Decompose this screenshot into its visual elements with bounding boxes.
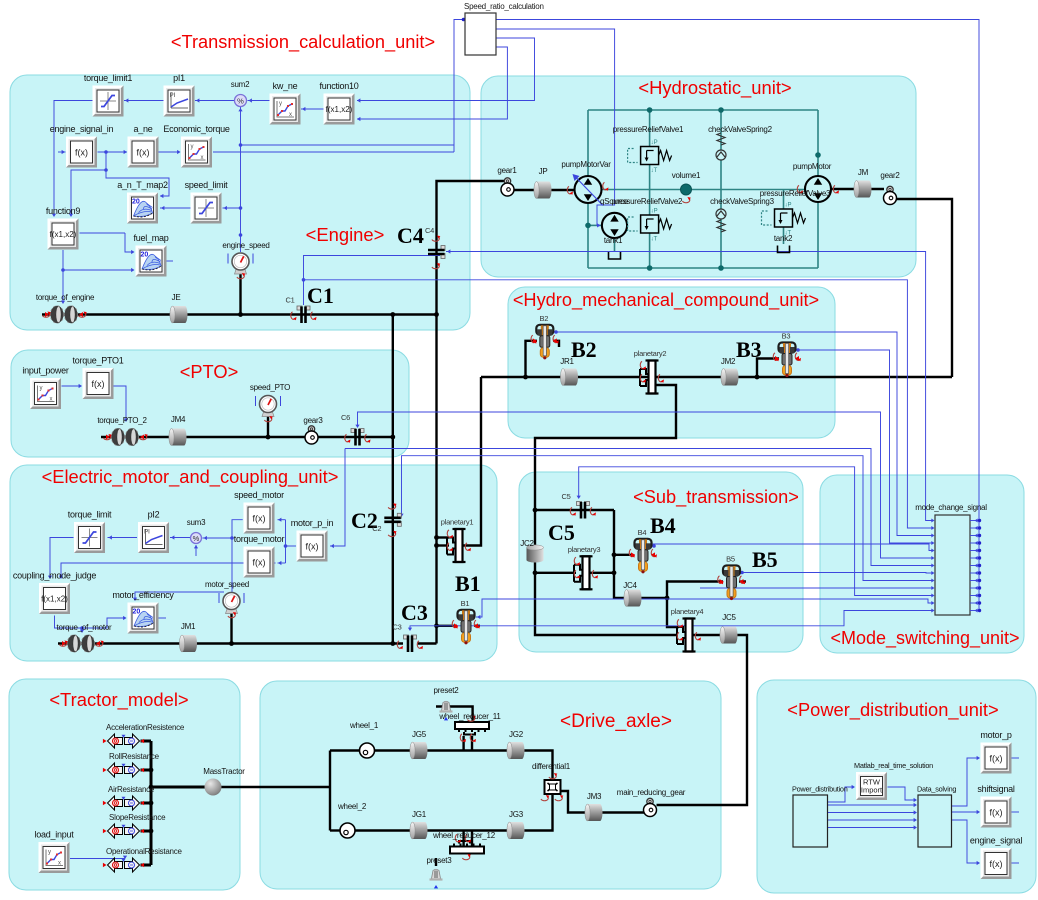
svg-text:y: y [40,386,43,392]
resistance AirResistance [108,796,140,810]
svg-text:JG2: JG2 [509,730,524,739]
svg-text:speed_limit: speed_limit [185,180,229,190]
block torque_PTO1 [72,356,123,400]
svg-text:↓P: ↓P [651,209,658,215]
wire speed_limit to a_n_T_map2 [160,207,191,209]
wire branch to C4 left [304,256,441,280]
svg-text:C3: C3 [401,600,428,625]
pump pumpMotor [805,176,831,202]
wire top wheel row [375,751,553,781]
svg-text:pressureReliefValve3: pressureReliefValve3 [760,189,831,198]
svg-text:f(x): f(x) [990,754,1003,764]
brake B4 [635,539,652,549]
svg-text:speed_PTO: speed_PTO [250,383,290,392]
wire engine_speed to shaft [239,270,241,315]
wire fuel_map top input [125,233,134,252]
wire pI2 to torque_limit [108,537,138,539]
gauge engine_speed [235,268,247,274]
svg-text:f(x1,x2): f(x1,x2) [326,105,353,114]
svg-text:f(x): f(x) [253,514,266,524]
block Data_solving [918,795,952,847]
wire B2 branch [526,341,538,377]
svg-text:B4: B4 [638,528,647,537]
svg-text:coupling_mode_judge: coupling_mode_judge [13,571,97,581]
wire Data_solving to shiftsignal [952,811,980,813]
block load_input [34,830,74,874]
hydraulic junction dots [647,107,653,113]
wire Speed_ratio out2 to qSource [497,29,615,225]
svg-text:volume1: volume1 [672,171,701,180]
brake B2 [536,325,553,335]
wire function9 branch to fuel_map [63,269,134,271]
resistance SlopeResistance [108,824,140,838]
svg-text:main_reducing_gear: main_reducing_gear [617,788,686,797]
svg-text:OperationalResistance: OperationalResistance [106,847,182,856]
gear2 [887,186,893,192]
svg-text:pumpMotorVar: pumpMotorVar [561,160,611,169]
svg-text:<Mode_switching_unit>: <Mode_switching_unit> [830,628,1019,649]
wire motor_speed to motor_efficiency [135,592,224,600]
svg-text:x: x [201,155,204,161]
wire Data_solving to engine_signal [952,820,980,863]
svg-text:tank2: tank2 [774,234,793,243]
wire hydromech shaft down to planetary1 [463,377,482,546]
svg-text:%: % [237,96,244,105]
region box PTO [11,350,409,457]
svg-text:f(x): f(x) [253,558,266,568]
wire B4 branch [614,554,631,556]
differential differential1 [545,780,561,794]
wire Speed_ratio out3 to function10 [357,38,535,101]
svg-text:kw_ne: kw_ne [273,81,298,91]
svg-text:JG1: JG1 [412,810,427,819]
svg-text:B5: B5 [726,555,735,564]
svg-text:fuel_map: fuel_map [133,233,168,243]
inertia JG5 [410,742,428,759]
preset preset3 [432,869,441,879]
svg-text:speed_motor: speed_motor [234,490,284,500]
svg-text:JC4: JC4 [623,581,637,590]
inertia JP [534,182,552,199]
gear3 [308,426,314,432]
wire reducer12 verticals [462,831,464,847]
svg-text:JR1: JR1 [560,357,574,366]
svg-text:torque_of_engine: torque_of_engine [36,293,95,302]
check valve checkValveSpring2 [717,133,725,145]
svg-text:x: x [289,112,292,118]
svg-text:MassTractor: MassTractor [203,767,245,776]
wire electric motor shaft [58,642,403,644]
svg-text:f(x): f(x) [75,148,88,158]
check valve checkValveSpring3 [716,209,726,219]
svg-text:planetary1: planetary1 [441,518,474,527]
svg-text:wheel_reducer_12: wheel_reducer_12 [432,831,496,840]
wire sum2 column to speed_limit [223,207,241,209]
block engine_signal [970,836,1023,880]
wire drive axle wheel split [329,751,331,831]
inertia JC5 [720,627,738,644]
inertia JM2 [721,369,739,386]
block Matlab_real_time_solution RTW Import [856,772,887,800]
wire sub vertical x614 [614,510,626,598]
planetary planetary4 [686,619,693,652]
wire engine shaft [42,313,437,315]
svg-text:planetary3: planetary3 [568,545,601,554]
wire mode line y588 [700,587,933,589]
wire sum2 to pI1 [195,100,234,102]
svg-text:B4: B4 [650,513,676,538]
svg-text:y: y [279,101,282,107]
svg-text:engine_signal: engine_signal [970,836,1023,846]
wire B3 signal to mode unit [796,350,934,543]
svg-text:function10: function10 [319,81,358,91]
svg-text:JM4: JM4 [171,415,186,424]
svg-text:x: x [50,397,53,403]
wire input_power to torque_PTO1 [62,385,82,387]
resistance RollResistance [108,763,140,777]
wire Speed_ratio out1 to mode unit [497,20,980,611]
svg-text:Speed_ratio_calculation: Speed_ratio_calculation [464,2,544,11]
svg-text:gear3: gear3 [303,416,323,425]
inertia JM4 [169,429,187,446]
block kw_ne [270,81,301,125]
svg-text:motor_p_in: motor_p_in [291,518,334,528]
wire branch to a_n_T_map2 [106,170,169,196]
wire torque line to coupling_mode_judge [61,563,276,578]
block motor_p_in [291,518,334,562]
svg-text:planetary4: planetary4 [671,607,704,616]
gear main_reducing_gear [647,798,653,804]
svg-text:↓P: ↓P [785,203,792,209]
wire function9 down to torque_of_engine [62,250,64,303]
wire JC4 to B5 and planetary4 [640,597,667,599]
wire C5 row [535,509,614,511]
svg-text:C1: C1 [307,283,334,308]
wire Economic_torque out [213,151,454,153]
block pI1 [164,73,195,117]
svg-text:sum3: sum3 [187,518,206,527]
hydraulic branch checkValve column [720,110,722,268]
torque source torque_of_engine [50,306,63,323]
torque source torque_of_motor [67,635,80,652]
block Economic_torque [163,124,230,168]
clutch C1 [297,306,302,310]
wire torque_PTO1 to torque_PTO_2 [114,386,127,421]
svg-text:wheel_1: wheel_1 [349,721,379,730]
wire C5 signal to mode unit [579,467,933,596]
svg-text:torque_motor: torque_motor [234,534,285,544]
inertia JC2 [527,545,544,563]
block a_ne [128,124,159,168]
region box Drive_axle [260,681,721,889]
svg-text:gear1: gear1 [497,166,517,175]
svg-text:<Power_distribution_unit>: <Power_distribution_unit> [787,699,998,721]
wire motor_p_in input from y448 line [330,449,345,547]
wire Speed_ratio out4 to function10 [357,47,507,119]
valve pressureReliefValve2 [641,215,659,233]
clutch C6 [351,429,356,433]
wheel wheel_2 [340,823,355,838]
wire RTW Import to Data_solving [888,787,917,800]
clutch C5 [577,502,582,506]
wire B5 signal to mode unit [740,572,933,575]
svg-text:Economic_torque: Economic_torque [163,124,230,134]
wire hydrostatic input shaft gear1-JP-pump [514,189,575,191]
wire speed_PTO to shaft [267,413,269,437]
svg-text:sum2: sum2 [231,80,250,89]
svg-text:f(x): f(x) [306,542,319,552]
svg-text:shiftsignal: shiftsignal [977,784,1015,794]
brake B1 [458,610,475,620]
svg-text:engine_speed: engine_speed [222,241,269,250]
svg-text:preset3: preset3 [427,856,453,865]
valve pressureReliefValve1 [641,147,659,165]
svg-text:AirResistance: AirResistance [108,785,155,794]
inertia JM1 [179,635,197,652]
gear1 [504,178,510,184]
svg-text:20: 20 [132,199,140,206]
planetary planetary3 [583,556,590,589]
svg-text:torque_PTO_2: torque_PTO_2 [97,416,147,425]
tank tank2 [778,246,790,253]
svg-text:checkValveSpring3: checkValveSpring3 [710,197,774,206]
block motor_p [980,730,1012,774]
svg-text:JM3: JM3 [587,792,602,801]
block coupling_mode_judge [13,571,97,615]
resistance OperationalResistance [108,858,140,872]
wire engine_speed up [240,107,242,252]
svg-text:<Transmission_calculation_unit: <Transmission_calculation_unit> [171,32,435,53]
block mode_change_signal [935,515,970,615]
svg-text:differential1: differential1 [532,762,571,771]
hydraulic qSource branch [588,224,602,226]
svg-text:torque_limit1: torque_limit1 [84,73,133,83]
svg-text:motor_speed: motor_speed [205,580,249,589]
svg-text:checkValveSpring2: checkValveSpring2 [708,125,772,134]
wire motor_speed to shaft [230,611,232,644]
svg-text:Import: Import [861,786,883,795]
wire MassTractor shaft [151,786,205,789]
wire Power_distribution to RTW Import [828,787,855,802]
svg-text:Matlab_real_time_solution: Matlab_real_time_solution [854,761,933,770]
valve pressureReliefValve3 [775,209,793,227]
wire planetary3 left [535,572,576,574]
inertia JR1 [560,369,578,386]
svg-text:torque_limit: torque_limit [68,510,112,520]
block pI2 [138,510,169,554]
svg-text:x: x [58,861,61,867]
wire B2 signal to mode unit [554,332,934,536]
wire motor_p_in to speed_motor torque_motor [286,545,297,547]
wire C3 signal from mode unit [410,611,933,631]
wire pI1 to torque_limit1 [124,100,164,102]
volume volume1 [681,184,692,195]
inertia JG1 [410,822,428,839]
svg-text:C1: C1 [285,296,294,305]
wire B4 signal to mode unit [652,544,934,551]
svg-text:<Electric_motor_and_coupling_u: <Electric_motor_and_coupling_unit> [42,466,339,488]
planetary planetary1 [456,529,463,562]
svg-text:20: 20 [133,609,141,616]
block torque_limit [68,510,112,554]
svg-text:motor_p: motor_p [980,730,1012,740]
svg-text:B2: B2 [539,314,548,323]
svg-text:y: y [191,144,194,150]
inertia JG3 [507,822,525,839]
svg-text:C2: C2 [372,524,381,533]
block shiftsignal [977,784,1015,828]
svg-text:B1: B1 [461,599,470,608]
svg-text:SlopeResistance: SlopeResistance [109,813,166,822]
region box Mode_switching_unit [820,475,1024,653]
preset preset2 [442,701,451,711]
source qSource [602,213,627,238]
block motor_efficiency [112,590,174,634]
region box Power_distribution_unit [757,680,1036,893]
block input_power [22,366,69,410]
wire hydromech main shaft [481,376,952,378]
svg-text:mode_change_signal: mode_change_signal [915,503,987,512]
svg-text:y: y [48,850,51,856]
wire motor_efficiency out stub [159,617,167,619]
block engine_signal_in [50,124,114,168]
svg-text:JG3: JG3 [509,810,524,819]
hydraulic circuit frame [588,109,818,111]
svg-text:RollResistance: RollResistance [109,752,160,761]
region box Sub_transmission [519,472,803,652]
inertia JG2 [507,742,525,759]
svg-text:motor_efficiency: motor_efficiency [112,590,174,600]
svg-text:C5: C5 [548,520,575,545]
block fuel_map [133,233,168,277]
tank tank1 [609,252,621,259]
wire differential to JM3 to main gear [561,791,645,813]
svg-text:pressureReliefValve1: pressureReliefValve1 [613,125,684,134]
svg-text:JP: JP [539,167,548,176]
svg-text:f(x): f(x) [137,148,150,158]
svg-text:JC2: JC2 [520,539,534,548]
svg-text:function9: function9 [46,206,81,216]
svg-text:wheel_2: wheel_2 [337,802,367,811]
svg-text:JM: JM [858,168,869,177]
pump pumpMotorVar [575,176,602,203]
wire vertical shaft x393 [392,315,394,644]
wire C4 signal to mode unit [446,252,933,521]
svg-text:f(x1,x2): f(x1,x2) [41,595,68,604]
svg-text:f(x): f(x) [990,859,1003,869]
region box Hydro_mechanical_compound_unit [508,287,835,438]
hydraulic branch pressureReliefValve3 column [783,190,785,245]
wheel wheel_1 [360,743,375,758]
svg-text:a_ne: a_ne [133,124,152,134]
svg-text:JE: JE [172,293,181,302]
wire C2 signal to mode unit [402,456,934,581]
svg-text:C5: C5 [561,492,570,501]
mass MassTractor [205,779,222,796]
svg-text:JG5: JG5 [412,730,427,739]
svg-text:<PTO>: <PTO> [180,361,239,382]
planetary planetary2 [649,361,656,394]
svg-text:JM2: JM2 [721,357,736,366]
gauge speed_PTO [262,411,274,417]
svg-text:<Engine>: <Engine> [306,224,385,245]
wire hydrostatic output shaft pump-JM-gear2 [831,188,884,190]
wire C6 signal to mode unit [358,412,934,558]
stubs f(x) outputs [1012,757,1020,759]
svg-text:<Sub_transmission>: <Sub_transmission> [633,487,799,508]
svg-text:planetary2: planetary2 [634,349,667,358]
wire engine_signal_in to a_ne [98,151,128,153]
wire reducer11 verticals [462,736,464,751]
svg-text:gear2: gear2 [880,171,900,180]
wire load_input to OperationalResistance [70,858,125,860]
wire speed_motor out / motor_speed to sum3 [232,520,243,592]
wire PTO shaft [101,436,393,438]
svg-text:↓T: ↓T [651,168,658,174]
clutch C3 [404,635,409,639]
svg-text:C3: C3 [392,623,401,632]
block function9 [46,206,81,250]
reducer wheel_reducer_12 [450,847,484,854]
wire sum3 bottom stub [195,545,197,556]
svg-text:a_n_T_map2: a_n_T_map2 [117,180,168,190]
wire engine_signal_in input stub [58,151,66,153]
svg-text:AccelerationResistence: AccelerationResistence [106,723,185,732]
wire coupling_mode_judge out [55,616,127,629]
wire planetary1 left ports [437,536,450,538]
svg-text:torque_of_motor: torque_of_motor [57,623,113,632]
svg-text:Power_distribution: Power_distribution [792,785,848,794]
svg-text:20: 20 [141,252,149,259]
wire vertical shaft x437 to gear1 [437,181,505,644]
region box Engine [10,75,470,330]
wire gear2 to hydromech shaft [897,199,953,377]
sum2 [235,95,247,107]
block speed_motor [234,490,284,534]
svg-text:<Hydro_mechanical_compound_uni: <Hydro_mechanical_compound_unit> [513,290,819,311]
mode unit right stubs [970,520,980,522]
svg-text:Data_solving: Data_solving [917,785,956,794]
block Power_distribution [793,795,828,847]
svg-text:C4: C4 [397,223,424,248]
svg-text:f(x1,x2): f(x1,x2) [50,230,77,239]
svg-text:tank1: tank1 [604,236,623,245]
svg-text:wheel_reducer_11: wheel_reducer_11 [438,712,501,721]
svg-text:B1: B1 [455,571,481,596]
wire fuel_map out stub [167,260,174,262]
wire electric sum3 to pI2 [170,537,190,539]
svg-text:load_input: load_input [34,830,74,840]
svg-text:pI1: pI1 [173,73,185,83]
inertia JC4 [624,590,642,607]
wire a_ne to Economic_torque [159,151,181,153]
svg-text:f(x): f(x) [990,808,1003,818]
wire C1 signal to mode unit [304,280,934,528]
wire torque_limit1 to function9 [54,101,93,217]
wire planetary4 right to JC5 to drive axle [657,635,748,805]
wire planetary2 lower port to sub column [535,385,676,635]
wire tractor resistance bus [141,740,152,743]
wire bottom wheel row [355,794,553,831]
inertia JE [170,306,188,323]
svg-text:↓P: ↓P [651,140,658,146]
hydraulic branch pressureReliefValve column [649,110,651,268]
svg-text:preset2: preset2 [434,686,460,695]
block function10 [319,81,358,125]
junction dots black [238,312,243,317]
wires Power_distribution to Data_solving [828,804,917,806]
gauge motor_speed [226,608,238,614]
